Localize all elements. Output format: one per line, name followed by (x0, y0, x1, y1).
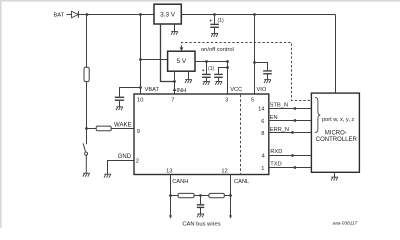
wire 5V output (195, 62, 228, 95)
pin number 3 (225, 97, 228, 103)
arrowhead INH up (173, 87, 177, 91)
wire VBAT feed vertical (140, 15, 142, 95)
svg-text:1: 1 (261, 166, 264, 172)
svg-text:STB_N: STB_N (270, 102, 288, 108)
svg-text:(1): (1) (208, 66, 214, 72)
capacitor C1 (3.3V rail decoupling) (210, 15, 219, 34)
pin number 2 (136, 158, 139, 164)
voltage regulator 3.3 V (154, 4, 181, 24)
junction cap C1 tap (213, 13, 216, 16)
label STB_N (270, 102, 288, 108)
ground (C3) (203, 81, 210, 84)
svg-text:7: 7 (171, 97, 174, 103)
junction cap C3 tap (205, 60, 208, 63)
junction wake resistor tap (85, 127, 88, 130)
pin number 10 (137, 97, 143, 103)
page frame top border (0, 0, 400, 2)
pin number 8 (261, 131, 264, 137)
svg-text:on/off control: on/off control (201, 47, 234, 53)
label port w, x, y, z (322, 117, 354, 123)
arrowhead CANH down (169, 215, 172, 218)
svg-text:WAKE: WAKE (114, 122, 131, 128)
ground (3.3 V regulator) (171, 24, 178, 35)
wire BAT to diode (67, 14, 72, 16)
svg-text:10: 10 (137, 97, 143, 103)
ground (C4) (215, 81, 222, 84)
junction CANL bus (229, 194, 232, 197)
capacitor C4 (VCC second) (214, 68, 227, 82)
diode (battery reverse-protection) (72, 11, 79, 18)
label CANH (172, 179, 188, 185)
svg-text:CONTROLLER: CONTROLLER (316, 137, 358, 143)
svg-text:VBAT: VBAT (145, 87, 160, 93)
ground (C1) (211, 34, 218, 37)
brace port group (315, 97, 320, 132)
wire GND pin to ground (108, 161, 135, 175)
CAN transceiver IC box (134, 94, 269, 175)
svg-text:13: 13 (166, 169, 172, 175)
wire INH vertical (174, 71, 176, 94)
ground (GND pin) (104, 174, 111, 177)
svg-text:MICRO-: MICRO- (325, 131, 347, 137)
capacitor C5 (VIO) (255, 63, 272, 80)
wire TXD (269, 167, 312, 169)
svg-text:4: 4 (262, 153, 265, 159)
resistor (termination RT/2 left) (178, 193, 194, 197)
svg-text:RXD: RXD (270, 149, 282, 155)
wire rail corner down to microcontroller (335, 15, 337, 94)
svg-text:VCC: VCC (230, 87, 242, 93)
label ERR_N (270, 127, 289, 133)
pin number 12 (221, 169, 227, 175)
svg-text:(1): (1) (218, 18, 224, 24)
arrowhead TXD left (292, 166, 296, 169)
ground (5 V regulator) (185, 71, 192, 83)
resistor (wake pull-up) (84, 67, 89, 81)
wire RXD (269, 155, 312, 157)
wire battery rail top (79, 14, 154, 16)
junction VCC corner (226, 60, 229, 63)
voltage regulator 5 V (168, 51, 195, 71)
svg-text:TXD: TXD (270, 162, 281, 168)
resistor (wake series) (87, 126, 135, 131)
microcontroller box (311, 93, 359, 172)
resistor (termination RT/2 right) (209, 193, 224, 197)
arrowhead RXD right (292, 154, 296, 157)
svg-text:5: 5 (251, 97, 254, 103)
ground (bus cap) (197, 214, 204, 217)
wire 3.3V enable to INH elbow (161, 24, 175, 82)
pin number 7 (171, 97, 174, 103)
svg-text:GND: GND (118, 154, 132, 160)
capacitor C3 (VCC) (202, 62, 211, 82)
pin label INH (176, 88, 186, 94)
pin number 6 (261, 119, 264, 125)
svg-text:3: 3 (225, 97, 228, 103)
capacitor (bus termination) (197, 196, 205, 214)
pin label VCC (230, 87, 242, 93)
ground (C5) (264, 80, 271, 83)
svg-text:CANL: CANL (234, 179, 249, 185)
ground (C2) (116, 107, 123, 110)
svg-text:2: 2 (136, 158, 139, 164)
svg-text:3.3 V: 3.3 V (160, 11, 176, 18)
junction INH enable (173, 80, 176, 83)
junction 5V input tap (139, 58, 142, 61)
svg-text:6: 6 (261, 119, 264, 125)
wire STB_N (269, 108, 312, 110)
wire microcontroller ground stub (334, 172, 336, 177)
arrowhead CANL down (229, 215, 232, 218)
svg-text:aaa-038117: aaa-038117 (333, 221, 358, 226)
svg-text:VIO: VIO (257, 87, 267, 93)
pin number 13 (166, 169, 172, 175)
wire CAN bus horizontal (171, 195, 231, 197)
pin number 5 (251, 97, 254, 103)
label GND (118, 154, 132, 160)
svg-text:ERR_N: ERR_N (270, 127, 289, 133)
svg-text:INH: INH (176, 88, 186, 94)
arrowhead EN left (292, 119, 296, 122)
junction VBAT cap tap (139, 86, 142, 89)
label CANL (234, 179, 249, 185)
junction C4 elbow (226, 66, 229, 69)
wire EN (269, 120, 312, 122)
label TXD (270, 162, 281, 168)
svg-text:8: 8 (261, 131, 264, 137)
wire 3.3V output rail (181, 14, 335, 16)
wire CANL vertical (230, 175, 232, 216)
wire ERR_N (269, 132, 312, 134)
svg-text:14: 14 (258, 107, 264, 113)
capacitor C2 (VBAT decoupling) (115, 97, 124, 106)
pin number 14 (258, 107, 264, 113)
wire to switch (86, 82, 88, 145)
ground (microcontroller) (331, 177, 338, 180)
junction VIO tap (253, 13, 256, 16)
svg-text:CANH: CANH (172, 179, 188, 185)
node BAT label (54, 13, 65, 19)
svg-text:port w, x, y, z: port w, x, y, z (322, 117, 354, 123)
wire CANH vertical (170, 175, 172, 216)
pin number 9 (137, 129, 140, 135)
svg-text:EN: EN (270, 115, 278, 121)
junction CANH bus (169, 194, 172, 197)
junction VIO cap tap (253, 61, 256, 64)
junction wake tap (86, 13, 89, 16)
label WAKE (114, 122, 131, 128)
footnote marker (1) for C1 (210, 18, 224, 24)
arrowhead into 5V regulator (180, 47, 184, 51)
wire to VBAT decoupling cap (120, 88, 141, 97)
label on/off control (201, 47, 234, 53)
footnote marker (1) for C3 (202, 66, 214, 72)
junction VBAT tap (139, 13, 142, 16)
pin number 1 (261, 166, 264, 172)
junction bus center (199, 194, 202, 197)
switch (wake) (83, 143, 87, 173)
pin label VIO (257, 87, 267, 93)
arrowhead ERR_N right (292, 131, 296, 134)
dashed net on/off control (182, 43, 312, 101)
IC internal dashed divider (240, 95, 242, 174)
svg-text:CAN bus wires: CAN bus wires (182, 221, 220, 227)
label EN (270, 115, 278, 121)
pin number 4 (262, 153, 265, 159)
svg-text:9: 9 (137, 129, 140, 135)
label CAN bus wires (182, 221, 220, 227)
svg-text:BAT: BAT (54, 13, 65, 19)
ground (switch) (83, 173, 90, 176)
svg-text:5 V: 5 V (177, 58, 187, 65)
label MICRO-CONTROLLER (316, 131, 358, 144)
svg-text:12: 12 (221, 169, 227, 175)
label RXD (270, 149, 282, 155)
label aaa-038117 (333, 221, 358, 226)
arrowhead STB_N left (292, 107, 296, 110)
page frame left border (0, 0, 2, 228)
wire VIO feed vertical (254, 15, 256, 95)
wire 5V regulator input (141, 59, 168, 61)
pin label VBAT (145, 87, 160, 93)
wire wake vertical from battery rail (86, 14, 88, 67)
